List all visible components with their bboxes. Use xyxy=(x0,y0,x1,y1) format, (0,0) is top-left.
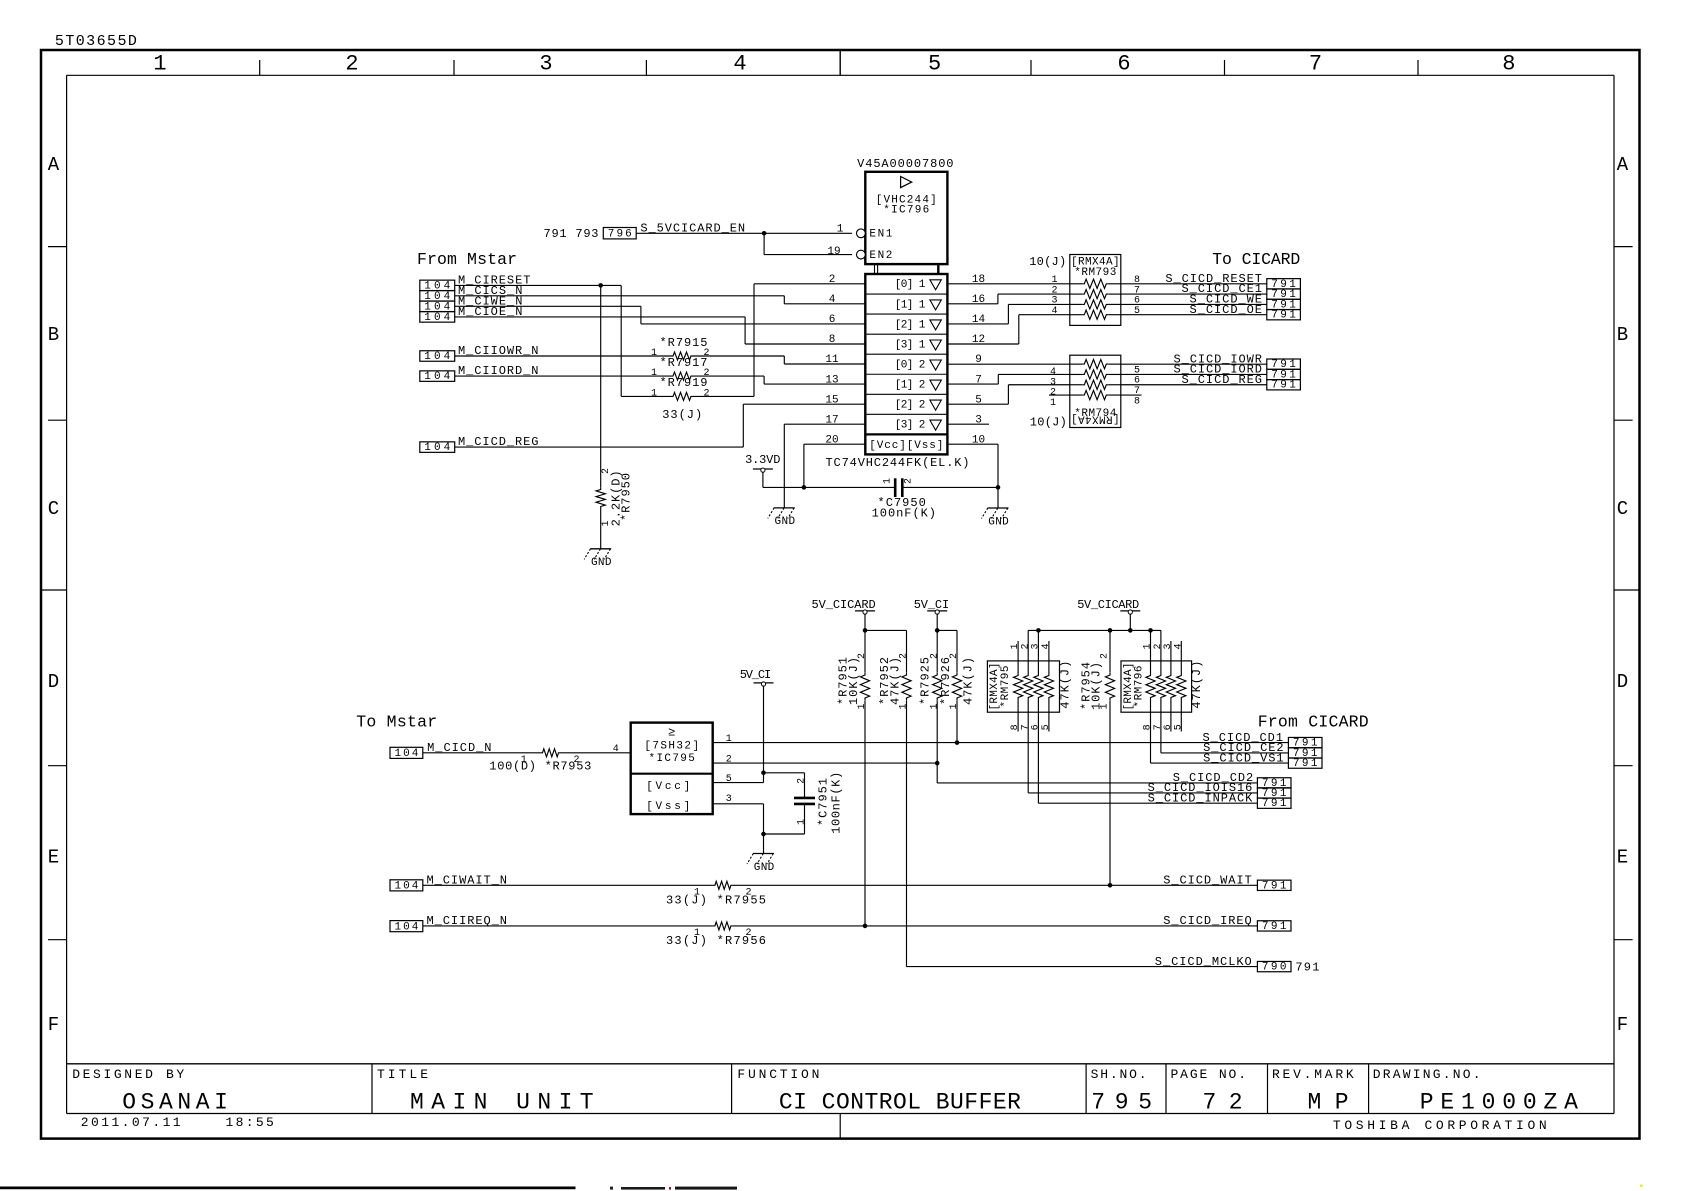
power 5V_CI supply mid xyxy=(914,598,950,614)
wire S_CICD_MCLKO line from R7952 xyxy=(907,966,1258,968)
svg-text:GND: GND xyxy=(754,862,775,874)
svg-text:B: B xyxy=(48,324,59,346)
svg-text:To CICARD: To CICARD xyxy=(1212,250,1300,269)
resistor R7919 33ohm xyxy=(651,376,710,400)
svg-text:1: 1 xyxy=(1050,398,1056,409)
title block date stamp xyxy=(81,1115,274,1130)
junction Vss ground node xyxy=(761,832,766,837)
node S_CICD_CE2 port 791 xyxy=(1203,741,1322,760)
wire IC795 pin 1 S_CICD_CD1 line xyxy=(713,742,1289,744)
wire R7919 output to buffer pin 2 xyxy=(693,284,865,397)
svg-text:[RMX4A]: [RMX4A] xyxy=(1071,413,1120,425)
svg-text:6: 6 xyxy=(1117,52,1130,77)
svg-text:E: E xyxy=(48,846,59,868)
svg-text:*C7951: *C7951 xyxy=(816,778,830,826)
junction Vcc bypass xyxy=(802,485,807,490)
wire buffer pin 12 to RM793 pin 4 xyxy=(947,315,1069,344)
junction 5V_CI rail xyxy=(935,628,940,633)
svg-text:*R7917: *R7917 xyxy=(660,356,708,370)
wire EN1 from 796 box xyxy=(636,232,852,234)
svg-text:33(J): 33(J) xyxy=(662,408,702,422)
svg-text:104: 104 xyxy=(395,881,419,893)
node S_CICD_RESET output to 791 xyxy=(1121,272,1301,291)
svg-text:791: 791 xyxy=(1295,960,1319,974)
svg-text:5T03655D: 5T03655D xyxy=(55,33,137,50)
svg-text:2: 2 xyxy=(797,778,808,784)
wire S_CICD_VS1 from RM796 xyxy=(1151,762,1289,764)
resistor R7915 33ohm xyxy=(651,336,710,360)
svg-text:10(J): 10(J) xyxy=(1030,415,1067,429)
svg-text:From Mstar: From Mstar xyxy=(417,250,517,269)
wire M_CICS_N to buffer pin 4 xyxy=(455,296,866,304)
svg-text:790: 790 xyxy=(1262,962,1287,974)
RM795 top pin numbers xyxy=(1010,643,1052,649)
wire buffer pin 17 to ground xyxy=(784,424,865,508)
svg-text:5: 5 xyxy=(928,52,941,77)
buffer IC796 main body with channel cells xyxy=(826,274,970,470)
wire RM794 pin 8 stub xyxy=(1121,394,1142,396)
wire S_CICD_CE2 from RM796 xyxy=(1161,752,1289,754)
svg-text:*R7950: *R7950 xyxy=(620,473,634,521)
svg-text:791: 791 xyxy=(1262,921,1287,933)
svg-text:1: 1 xyxy=(883,478,894,484)
op-amp U2 gate IC795 7SH32 xyxy=(631,723,713,815)
resistor network RM793 RMX4A xyxy=(1029,255,1121,326)
RM793 right pin numbers 8-5 xyxy=(1134,275,1140,317)
svg-text:DRAWING.NO.: DRAWING.NO. xyxy=(1373,1067,1481,1082)
title block title cell MAIN UNIT xyxy=(377,1067,594,1116)
svg-text:D: D xyxy=(48,671,59,693)
wire S_CICD_INPACK from RM795 xyxy=(1038,802,1257,804)
node M_CICD_N input port 104 xyxy=(390,741,492,760)
title block drawing number cell xyxy=(1373,1067,1578,1116)
wire buffer pin 18 to RM793 pin 1 xyxy=(947,283,1069,285)
svg-text:EN2: EN2 xyxy=(869,250,892,262)
node S_CICD_IOIS16 port 791 xyxy=(1148,781,1291,800)
wire RM794 pin 1 stub xyxy=(1049,394,1070,396)
title block function cell CI CONTROL BUFFER xyxy=(737,1067,1021,1116)
svg-text:5: 5 xyxy=(1173,724,1184,730)
svg-text:791: 791 xyxy=(1293,758,1318,770)
wire buffer pin 20 Vcc xyxy=(804,444,865,487)
wire buffer pin 9 to RM794 xyxy=(947,363,1069,365)
wire 5V_CI to IC795 Vcc pin 5 xyxy=(713,686,764,783)
svg-text:B: B xyxy=(1617,324,1628,346)
svg-text:5V_CI: 5V_CI xyxy=(740,668,772,682)
power 5V_CICARD supply right xyxy=(1077,598,1140,631)
node S_CICD_IREQ port 791 xyxy=(1163,914,1291,933)
resistor R7953 100ohm xyxy=(489,749,591,774)
svg-text:PAGE NO.: PAGE NO. xyxy=(1171,1067,1247,1082)
junction R7925 to VS1 segment xyxy=(935,761,940,766)
svg-text:47K(J): 47K(J) xyxy=(1059,661,1073,709)
RM795 pin stubs and pull wires xyxy=(1018,630,1049,803)
wire M_CICD_N to IC795 pin 4 xyxy=(423,744,631,755)
wire M_CIOE_N to buffer pin 8 xyxy=(455,317,866,344)
junction Vcc bypass tap xyxy=(761,771,766,776)
svg-text:*RM796: *RM796 xyxy=(1133,666,1145,708)
ground GND right of C7950 xyxy=(988,507,1009,509)
svg-text:*RM793: *RM793 xyxy=(1074,267,1116,279)
svg-text:7: 7 xyxy=(1309,52,1322,77)
node S_5VCICARD_EN enable net xyxy=(544,222,844,259)
wire S_CICD_IOIS16 from RM795 xyxy=(1028,792,1257,794)
svg-text:791: 791 xyxy=(1271,380,1296,392)
RM796 pin stubs and pull wires xyxy=(1151,630,1182,763)
svg-text:CI CONTROL BUFFER: CI CONTROL BUFFER xyxy=(779,1090,1021,1116)
svg-text:1: 1 xyxy=(153,52,166,77)
svg-text:33(J) *R7956: 33(J) *R7956 xyxy=(666,934,766,948)
resistor R7954 10K pullup xyxy=(1079,630,1114,885)
svg-text:3: 3 xyxy=(1031,643,1042,649)
svg-text:S_CICD_OE: S_CICD_OE xyxy=(1190,303,1262,317)
title block designed-by cell xyxy=(72,1067,228,1116)
svg-text:18:55: 18:55 xyxy=(226,1115,274,1130)
wire M_CIIORD_N through R7917 to buffer pin 13 xyxy=(455,376,866,384)
node M_CIWAIT_N input port 104 xyxy=(390,874,507,893)
svg-text:33(J) *R7955: 33(J) *R7955 xyxy=(666,893,766,907)
svg-text:2: 2 xyxy=(1100,653,1111,659)
svg-text:3: 3 xyxy=(539,52,552,77)
power 5V_CI supply at IC795 xyxy=(740,668,774,686)
resistor network RM796 RMX4A 47K xyxy=(1121,661,1204,713)
resistor R7925 47K pullup xyxy=(918,614,942,783)
svg-text:*R7926: *R7926 xyxy=(939,657,953,705)
wire IC795 Vss pin 3 to ground xyxy=(713,804,764,854)
svg-text:5: 5 xyxy=(1041,724,1052,730)
svg-text:To Mstar: To Mstar xyxy=(356,712,437,731)
node S_CICD_IOWR output to 791 xyxy=(1121,352,1301,371)
svg-text:[2] 2: [2] 2 xyxy=(895,400,926,412)
wire buffer pin 7 to RM794 xyxy=(947,374,1069,384)
power 3.3VD supply xyxy=(745,453,780,472)
svg-text:100(D) *R7953: 100(D) *R7953 xyxy=(489,759,591,773)
RM795 bottom pin numbers xyxy=(1010,724,1052,730)
capacitor C7950 100nF xyxy=(872,478,936,520)
svg-text:*R7915: *R7915 xyxy=(660,336,708,350)
RM796 top pin numbers xyxy=(1143,643,1185,649)
svg-text:3.3VD: 3.3VD xyxy=(745,453,780,467)
svg-text:47K(J): 47K(J) xyxy=(888,657,902,705)
svg-text:*R7919: *R7919 xyxy=(660,376,708,390)
svg-text:S_CICD_INPACK: S_CICD_INPACK xyxy=(1148,791,1253,805)
svg-text:EN1: EN1 xyxy=(869,229,892,241)
RM794 right pin numbers 5-8 xyxy=(1134,365,1140,407)
node M_CIIREQ_N input port 104 xyxy=(390,914,507,933)
svg-text:1: 1 xyxy=(1143,643,1154,649)
capacitor C7951 100nF xyxy=(764,772,844,834)
ground GND under R7950 xyxy=(590,548,611,550)
svg-text:100nF(K): 100nF(K) xyxy=(830,772,844,834)
node M_CIWE_N input port 104 xyxy=(420,294,523,313)
RM793 left pin numbers 1-4 xyxy=(1051,275,1057,317)
svg-text:TC74VHC244FK(EL.K): TC74VHC244FK(EL.K) xyxy=(826,456,970,470)
wire rail to R7926 xyxy=(937,629,957,631)
wire bypass to pin 10 Vss xyxy=(902,444,998,487)
title block page number cell xyxy=(1171,1067,1247,1116)
resistor R7917 33ohm xyxy=(651,356,710,380)
svg-text:10K(J): 10K(J) xyxy=(1090,662,1104,710)
svg-text:4: 4 xyxy=(733,52,746,77)
wire 5V_CICARD rail over networks xyxy=(1028,629,1161,631)
svg-text:GND: GND xyxy=(591,557,612,569)
title block rev mark cell xyxy=(1272,1067,1354,1116)
node S_CICD_WAIT port 791 xyxy=(1163,874,1291,893)
svg-text:From CICARD: From CICARD xyxy=(1258,712,1369,731)
svg-text:DESIGNED BY: DESIGNED BY xyxy=(72,1067,184,1082)
svg-text:GND: GND xyxy=(988,516,1009,528)
svg-text:47K(J): 47K(J) xyxy=(962,657,976,705)
title block sheet number cell xyxy=(1091,1067,1153,1116)
wire buffer pin 14 to RM793 pin 3 xyxy=(947,304,1069,324)
svg-text:S_CICD_REG: S_CICD_REG xyxy=(1182,373,1263,387)
wire buffer pin 16 to RM793 pin 2 xyxy=(947,294,1069,304)
svg-text:791: 791 xyxy=(1262,798,1287,810)
svg-text:E: E xyxy=(1617,846,1628,868)
wire M_CIIOWR_N through R7915 to buffer pin 11 xyxy=(455,356,866,364)
svg-text:GND: GND xyxy=(775,516,796,528)
wire IC795 pin 2 to R7925 xyxy=(713,762,938,764)
svg-text:[0] 2: [0] 2 xyxy=(895,359,926,371)
column numbers 1-8 xyxy=(153,52,1515,77)
svg-text:19: 19 xyxy=(827,246,840,258)
svg-text:S_CICD_WAIT: S_CICD_WAIT xyxy=(1163,874,1252,888)
svg-text:6: 6 xyxy=(1163,724,1174,730)
RM796 bottom pin numbers xyxy=(1143,724,1185,730)
svg-text:104: 104 xyxy=(424,442,450,454)
node S_CICD_CD1 port 791 xyxy=(1203,731,1323,750)
wire 5V rail to R7952 xyxy=(865,629,907,631)
node S_CICD_OE output to 791 xyxy=(1121,303,1301,322)
svg-text:5: 5 xyxy=(726,774,732,785)
junction R7951 to IREQ xyxy=(863,924,868,929)
svg-text:1: 1 xyxy=(797,819,808,825)
top border ticks xyxy=(260,50,1418,75)
node S_CICD_CE1 output to 791 xyxy=(1121,282,1301,301)
resistor network RM794 RMX4A rotated xyxy=(1030,355,1121,429)
svg-text:3: 3 xyxy=(1163,643,1174,649)
ground GND under IC795 xyxy=(753,853,774,855)
svg-text:[7SH32]: [7SH32] xyxy=(644,741,699,753)
svg-text:[Vcc][Vss]: [Vcc][Vss] xyxy=(869,440,943,452)
svg-text:47K(J): 47K(J) xyxy=(1190,661,1204,709)
svg-text:[1] 2: [1] 2 xyxy=(895,379,926,391)
title block grid xyxy=(67,1064,1614,1139)
svg-text:[Vcc]: [Vcc] xyxy=(646,781,690,793)
node S_CICD_VS1 port 791 xyxy=(1203,751,1322,770)
svg-text:[1] 1: [1] 1 xyxy=(895,299,926,311)
svg-text:[3] 2: [3] 2 xyxy=(895,420,926,432)
svg-text:2: 2 xyxy=(703,368,709,379)
svg-text:2: 2 xyxy=(703,388,709,399)
left border ticks xyxy=(41,247,67,940)
buffer right pin numbers xyxy=(972,274,986,446)
junction M_CIRESET pulldown tap xyxy=(598,283,603,288)
wire M_CIRESET to R7919 xyxy=(455,285,671,396)
junction 5V rail xyxy=(863,628,868,633)
resistor R7952 47K pullup xyxy=(878,630,911,966)
svg-text:A: A xyxy=(1617,154,1629,176)
svg-text:4: 4 xyxy=(613,744,619,755)
svg-text:10(J): 10(J) xyxy=(1029,255,1066,269)
junction EN net xyxy=(762,231,767,236)
resistor R7955 33ohm xyxy=(666,881,766,907)
wire M_CIWAIT_N S_CICD_WAIT line xyxy=(423,884,1258,886)
wire buffer pin 3 stub xyxy=(947,423,989,425)
resistor R7951 10K pullup xyxy=(837,614,870,926)
svg-text:1: 1 xyxy=(651,388,657,399)
node S_CICD_IORD output to 791 xyxy=(1121,363,1301,382)
svg-text:1: 1 xyxy=(651,368,657,379)
node S_CICD_REG output to 791 xyxy=(1121,373,1301,392)
svg-text:S_CICD_MCLKO: S_CICD_MCLKO xyxy=(1155,955,1252,969)
svg-text:F: F xyxy=(48,1014,59,1036)
svg-text:795: 795 xyxy=(1091,1090,1152,1116)
node S_CICD_WE output to 791 xyxy=(1121,293,1301,312)
svg-text:104: 104 xyxy=(424,312,450,324)
node S_CICD_MCLKO port 790 791 xyxy=(1155,955,1320,975)
svg-text:D: D xyxy=(1617,671,1628,693)
node M_CIIOWR_N input port 104 xyxy=(420,344,539,363)
svg-text:2: 2 xyxy=(345,52,358,77)
svg-text:*IC796: *IC796 xyxy=(883,205,929,217)
node S_CICD_INPACK port 791 xyxy=(1148,791,1291,810)
junction Vss ground node xyxy=(996,485,1001,490)
svg-text:8: 8 xyxy=(1143,724,1154,730)
svg-text:791: 791 xyxy=(1271,310,1296,322)
node M_CIOE_N input port 104 xyxy=(420,305,523,324)
wire S_CICD_CD2 from R7925 xyxy=(937,782,1257,784)
svg-text:2: 2 xyxy=(726,754,732,765)
svg-text:V45A00007800: V45A00007800 xyxy=(857,157,953,171)
node M_CIRESET input port 104 xyxy=(420,274,531,293)
resistor R7926 47K pullup xyxy=(939,630,976,742)
resistor R7956 33ohm xyxy=(666,922,766,948)
svg-text:C: C xyxy=(48,498,59,520)
row letters A-F right xyxy=(1617,154,1629,1036)
svg-text:4: 4 xyxy=(1173,643,1184,649)
svg-text:MAIN UNIT: MAIN UNIT xyxy=(410,1090,594,1116)
svg-text:*RM795: *RM795 xyxy=(1000,665,1012,707)
node M_CICS_N input port 104 xyxy=(420,284,523,303)
svg-text:791 793: 791 793 xyxy=(544,227,599,241)
svg-text:1: 1 xyxy=(726,734,732,745)
svg-text:*R7925: *R7925 xyxy=(918,657,932,705)
svg-text:1: 1 xyxy=(651,348,657,359)
bottom scan artifact line xyxy=(0,1185,1643,1190)
svg-text:104: 104 xyxy=(395,922,419,934)
svg-text:791: 791 xyxy=(1262,880,1287,892)
wire 3.3VD to Vcc bypass rail xyxy=(763,472,895,487)
svg-text:8: 8 xyxy=(1502,52,1515,77)
svg-text:104: 104 xyxy=(424,351,450,363)
right border ticks xyxy=(1614,247,1640,940)
resistor R7950 2.2K pulldown xyxy=(596,285,633,548)
svg-text:100nF(K): 100nF(K) xyxy=(872,506,936,520)
svg-text:6: 6 xyxy=(1031,724,1042,730)
svg-text:F: F xyxy=(1617,1014,1628,1036)
svg-text:104: 104 xyxy=(395,748,419,760)
IC795 pin numbers xyxy=(726,734,732,805)
ground GND under pin 17 xyxy=(774,507,795,509)
row letters A-F left xyxy=(48,154,60,1036)
svg-text:TITLE: TITLE xyxy=(377,1067,428,1082)
wire EN2 branch xyxy=(764,233,852,254)
junction R7954 to WAIT xyxy=(1108,883,1113,888)
wire down to ground xyxy=(997,487,999,508)
junction rail dots xyxy=(1036,628,1153,633)
svg-text:104: 104 xyxy=(424,371,450,383)
op-amp U1 buffer IC796 top box xyxy=(857,157,954,274)
wire M_CIIREQ_N S_CICD_IREQ line xyxy=(423,925,1258,927)
svg-text:10K(J): 10K(J) xyxy=(847,657,861,705)
svg-text:C: C xyxy=(1617,498,1628,520)
junction R7926 to S_CICD_CD1 xyxy=(955,740,960,745)
wire M_CIWE_N to buffer pin 6 xyxy=(455,306,866,324)
power 5V_CICARD supply left xyxy=(812,598,876,614)
node S_CICD_CD2 port 791 xyxy=(1173,771,1291,790)
svg-text:8: 8 xyxy=(1134,396,1140,407)
svg-text:[0] 1: [0] 1 xyxy=(895,279,926,291)
wire M_CICD_REG to buffer pin 15 xyxy=(455,404,866,447)
node M_CICD_REG input port 104 xyxy=(420,435,539,454)
RM794 left pin numbers 4-1 xyxy=(1050,367,1056,409)
svg-text:[2] 1: [2] 1 xyxy=(895,319,926,331)
svg-text:[3] 1: [3] 1 xyxy=(895,339,926,351)
svg-text:S_CICD_VS1: S_CICD_VS1 xyxy=(1203,751,1284,765)
svg-text:A: A xyxy=(48,154,60,176)
svg-text:[Vss]: [Vss] xyxy=(646,801,690,813)
svg-text:≥: ≥ xyxy=(668,725,675,739)
wire buffer pin 5 to RM794 xyxy=(947,385,1069,404)
node M_CIIORD_N input port 104 xyxy=(420,364,539,383)
svg-text:5V_CI: 5V_CI xyxy=(914,598,950,612)
resistor network RM795 RMX4A 47K xyxy=(987,661,1072,713)
svg-text:S_CICD_IREQ: S_CICD_IREQ xyxy=(1163,914,1252,928)
svg-text:796: 796 xyxy=(608,229,632,241)
svg-text:4: 4 xyxy=(1041,643,1052,649)
svg-text:2: 2 xyxy=(904,478,915,484)
buffer left pin numbers xyxy=(825,274,839,446)
